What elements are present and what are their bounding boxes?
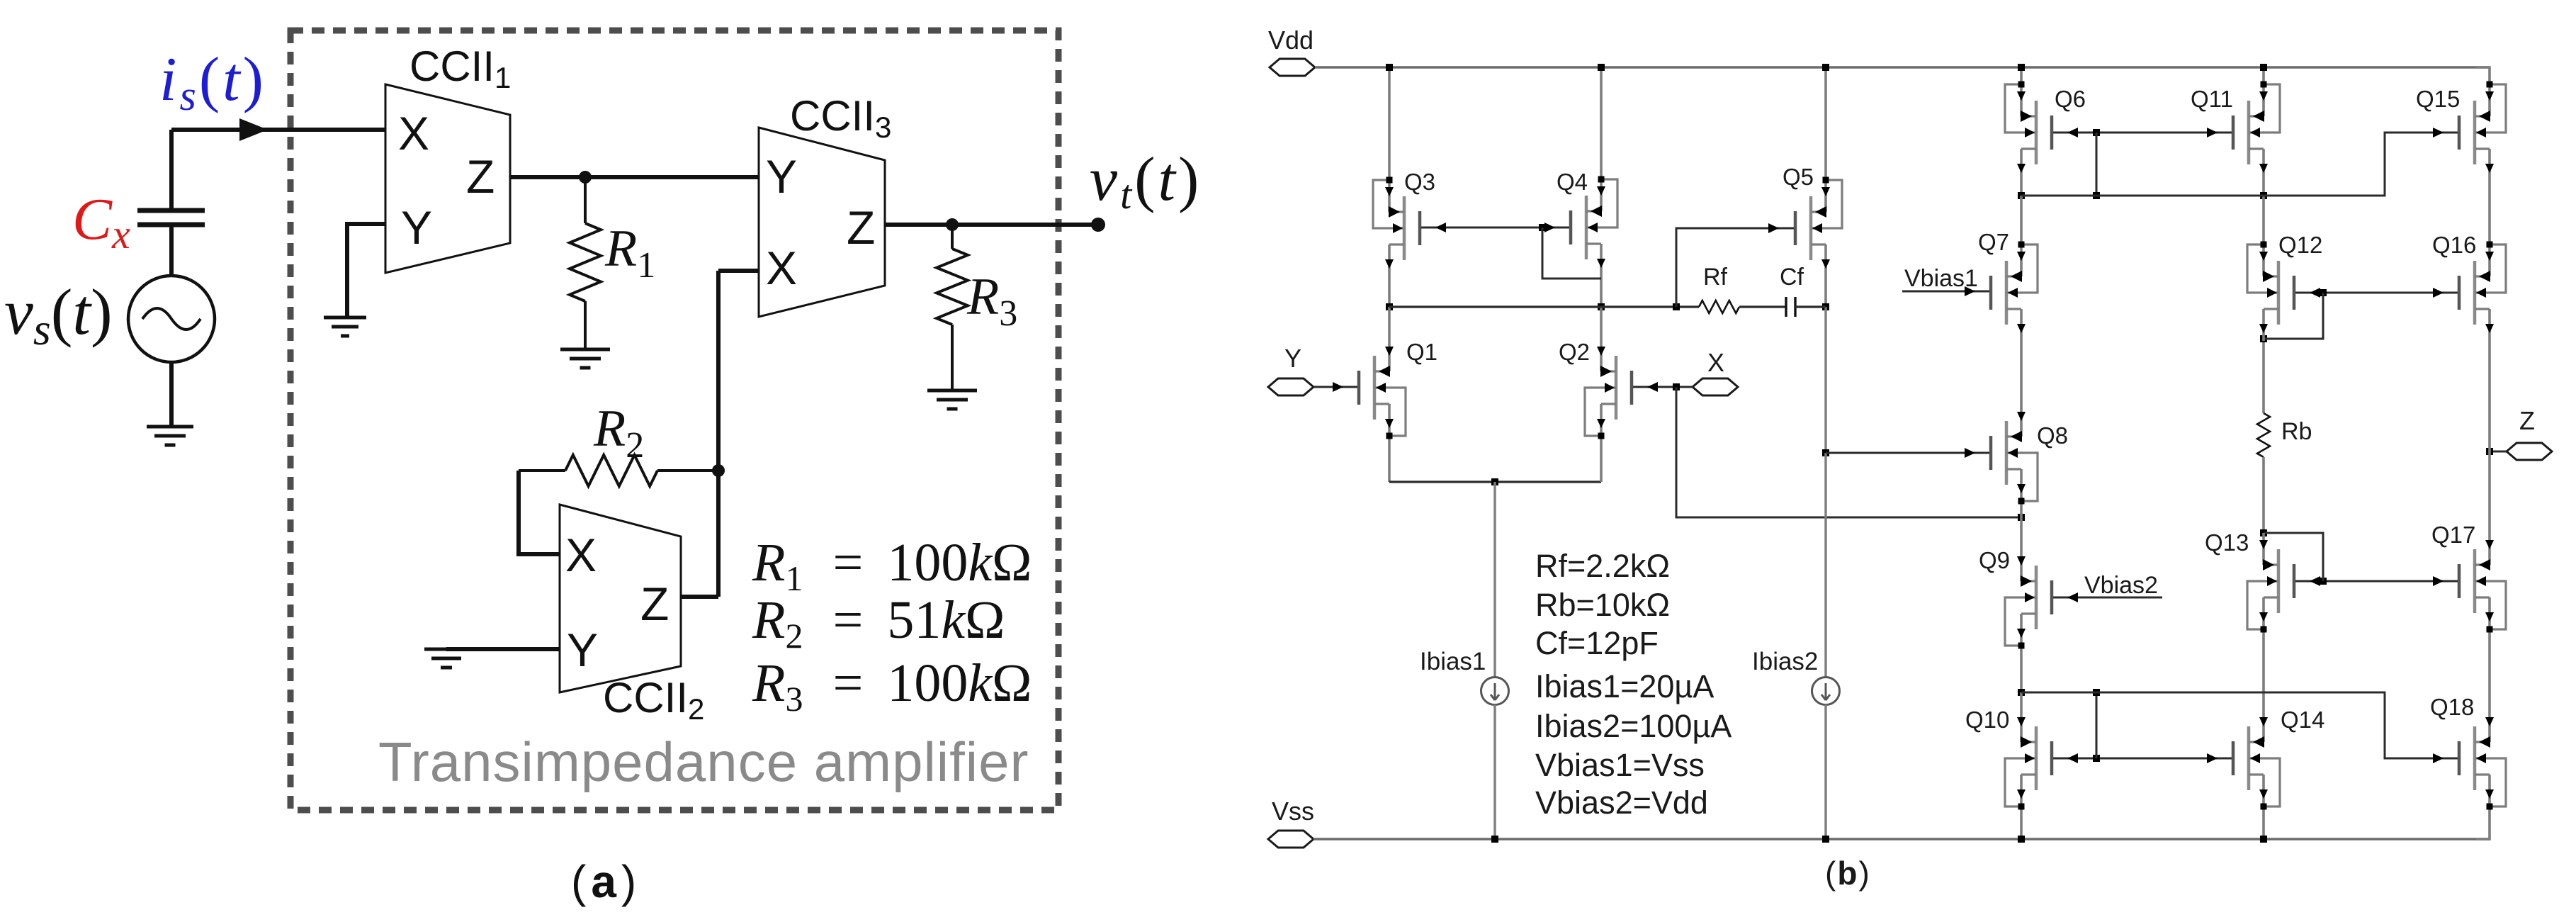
- wire col E from Vdd to Q11: [2262, 67, 2265, 84]
- wire Q3-Q4 gate tie: [1420, 227, 1571, 229]
- junction mirror line: [2093, 192, 2100, 199]
- ground below vs(t): [147, 425, 193, 429]
- junction Vdd col4: [2018, 64, 2025, 71]
- junction Cf node: [1822, 303, 1829, 310]
- svg-text:Transimpedance amplifier: Transimpedance amplifier: [378, 731, 1029, 793]
- port Vss: [1268, 831, 1314, 848]
- svg-text:Q10: Q10: [1965, 707, 2009, 733]
- svg-text:Z: Z: [640, 578, 669, 630]
- junction lower mirror col4: [2018, 689, 2025, 696]
- wire Q4 diode connection: [1542, 227, 1601, 279]
- svg-text:Vbias1: Vbias1: [1904, 265, 1978, 292]
- svg-text:Q17: Q17: [2431, 522, 2475, 548]
- junction R2 / CCII2 Z / CCII3 X: [712, 464, 725, 477]
- transistor Q3: [1373, 177, 1420, 277]
- junction node line col1: [1386, 303, 1393, 310]
- svg-text:Vbias2=Vdd: Vbias2=Vdd: [1535, 785, 1708, 821]
- wire Vbias1 to Q7 gate: [1902, 291, 1991, 293]
- wire tail Q2 side: [1600, 436, 1603, 482]
- resistor R3: [937, 225, 968, 390]
- wire Z output: [2490, 451, 2507, 453]
- wire Rf to Cf: [1739, 305, 1786, 308]
- wire Q12 diode connection: [2264, 293, 2323, 339]
- current arrow is(t): [239, 118, 268, 141]
- svg-text:Rb: Rb: [2281, 418, 2312, 445]
- transistor Q8: [1991, 405, 2038, 505]
- transistor Q12: [2247, 242, 2294, 342]
- wire Rb to Q13: [2262, 457, 2265, 533]
- wire Q16 to Z node: [2488, 341, 2491, 451]
- wire Q5 drain to Cf node: [1824, 276, 1827, 307]
- wire Q5 gate lead: [1676, 228, 1795, 307]
- svg-text:Y: Y: [401, 201, 432, 254]
- wire X to Q2 gate: [1632, 386, 1693, 388]
- wire CCII2 Z to node: [681, 595, 718, 599]
- wire col F Vdd corner to Q15: [2476, 67, 2490, 84]
- wire Q3 to node line: [1388, 276, 1391, 307]
- svg-text:Q13: Q13: [2205, 529, 2249, 556]
- transistor Q5: [1795, 177, 1842, 277]
- junction Vss col5: [2260, 836, 2267, 843]
- wire Vdd rail: [1315, 66, 2490, 68]
- svg-text:Q3: Q3: [1404, 169, 1435, 195]
- wire Q8 to X node line: [2020, 501, 2023, 517]
- node junction at R1: [579, 171, 592, 184]
- wire Q18 to Vss corner: [2476, 806, 2490, 839]
- current source Ibias2: [1812, 678, 1840, 705]
- wire Cf to col3: [1795, 305, 1826, 308]
- wire Y to Q1 gate: [1314, 386, 1359, 388]
- wire Q12-Q16 gate tie: [2294, 292, 2459, 294]
- svg-text:Q14: Q14: [2281, 707, 2324, 733]
- wire col D from Vdd to Q6: [2020, 67, 2023, 84]
- transistor Q10: [2005, 710, 2052, 810]
- source vs(t): [128, 276, 215, 362]
- svg-text:Z: Z: [847, 201, 875, 254]
- svg-text:Rf: Rf: [1703, 264, 1728, 291]
- svg-text:Y: Y: [567, 624, 598, 676]
- junction X node: [1673, 383, 1680, 390]
- transistor Q6: [2005, 81, 2052, 181]
- junction Vss Ibias2: [1822, 836, 1829, 843]
- junction Q3/Q4 gate tie: [1539, 224, 1546, 231]
- svg-text:Q18: Q18: [2430, 694, 2474, 720]
- junction Vdd col2: [1598, 64, 1605, 71]
- port Vdd: [1270, 59, 1315, 76]
- wire CCII3 X to node A: [718, 269, 759, 273]
- wire CCII3 Z output to vt(t): [885, 223, 1098, 227]
- junction Z node: [2486, 448, 2493, 455]
- wire Q6-Q11 gate tie: [2052, 132, 2233, 134]
- wire Q1 source to tail: [1388, 436, 1391, 482]
- wire Q4 to node line: [1600, 276, 1603, 307]
- wire Q6 to mirror node: [2020, 181, 2023, 196]
- svg-text:is(t): is(t): [159, 45, 266, 119]
- transistor Q11: [2233, 81, 2280, 181]
- wire tail down to Ibias1: [1493, 482, 1496, 678]
- junction X node at Q8/Q9: [2018, 514, 2025, 521]
- capacitor Cx: [137, 210, 205, 225]
- svg-text:Q2: Q2: [1559, 339, 1590, 365]
- wire Vbias2 to Q9 gate: [2052, 597, 2162, 599]
- wire is(t) input to CCII1 X: [171, 128, 385, 132]
- transistor Q7: [1991, 242, 2038, 342]
- wire Q7 to Q8: [2020, 341, 2023, 405]
- wire Q13 to Q14: [2262, 629, 2265, 710]
- svg-text:Y: Y: [1284, 344, 1301, 373]
- transistor Q16: [2459, 242, 2506, 342]
- svg-text:Q5: Q5: [1783, 164, 1814, 190]
- svg-text:X: X: [565, 529, 597, 581]
- wire Z node to Q17: [2488, 451, 2491, 533]
- resistor R1: [570, 177, 601, 349]
- junction Q10 gate tie: [2093, 755, 2100, 762]
- svg-text:Q9: Q9: [1979, 547, 2010, 573]
- junction Vdd col1: [1386, 64, 1393, 71]
- wire gate tie to lower mirror: [2096, 692, 2098, 758]
- svg-text:Q15: Q15: [2416, 86, 2460, 112]
- junction Q13 gate tie: [2320, 578, 2327, 585]
- svg-text:Vdd: Vdd: [1268, 26, 1314, 55]
- transistor Q13: [2247, 533, 2294, 633]
- svg-text:Vbias2: Vbias2: [2084, 572, 2158, 599]
- junction Q13 diode node: [2260, 529, 2267, 536]
- wire lower mirror node line to Q18 gate: [2021, 692, 2459, 758]
- wire Q17 to Q18: [2488, 629, 2491, 710]
- junction Q6 gate tie: [2093, 129, 2100, 136]
- svg-text:Cf=12pF: Cf=12pF: [1535, 625, 1659, 661]
- current source Ibias1: [1481, 678, 1509, 705]
- resistor Rf: [1699, 300, 1739, 313]
- wire CCII1 Z to CCII3 Y: [510, 175, 759, 179]
- svg-text:(b): (b): [1825, 855, 1871, 892]
- wire CCII1 Y to ground: [347, 224, 385, 317]
- svg-text:Q11: Q11: [2191, 86, 2233, 112]
- svg-text:Q1: Q1: [1406, 339, 1437, 365]
- wire Q15 to Q16: [2488, 181, 2491, 244]
- wire mirror node to Q12: [2262, 196, 2265, 244]
- wire capacitor top lead: [169, 130, 174, 210]
- svg-text:vt(t): vt(t): [1090, 145, 1202, 218]
- resistor Rb: [2257, 413, 2270, 457]
- transistor Q15: [2459, 81, 2506, 181]
- junction tail to Ibias1: [1491, 478, 1498, 485]
- svg-text:Vbias1=Vss: Vbias1=Vss: [1535, 747, 1705, 783]
- wire node line Q1-Q4 drains to Rf: [1389, 305, 1699, 308]
- wire lower mirror to Q10: [2020, 692, 2023, 710]
- wire mirror node line to Q15 gate: [2021, 133, 2459, 196]
- svg-text:(a): (a): [571, 856, 641, 907]
- wire Vss rail: [1314, 838, 2490, 840]
- svg-text:Q7: Q7: [1978, 229, 2009, 255]
- junction node line col2: [1598, 303, 1605, 310]
- wire Ibias2 to Vss: [1824, 704, 1826, 839]
- svg-text:Q6: Q6: [2055, 86, 2086, 112]
- dashed box: Transimpedance amplifier boundary: [290, 30, 1058, 810]
- svg-text:Q8: Q8: [2037, 422, 2068, 449]
- ground below R3: [927, 389, 977, 393]
- op-amp block CCII1: [385, 84, 510, 273]
- wire col Q4/Q2 from Vdd: [1600, 67, 1603, 179]
- wire mirror node to Q7: [2020, 196, 2023, 244]
- transistor Q2: [1585, 339, 1632, 439]
- svg-text:X: X: [1707, 348, 1724, 377]
- svg-text:Vss: Vss: [1272, 797, 1314, 826]
- wire Q11 to mirror node: [2262, 181, 2265, 196]
- svg-text:Q4: Q4: [1557, 169, 1588, 195]
- wire Cf node down to Q8 gate node: [1824, 307, 1826, 453]
- junction Vdd col5: [2260, 64, 2267, 71]
- junction lower mirror line: [2093, 689, 2100, 696]
- wire Q13 diode connection: [2264, 533, 2323, 581]
- wire CCII2 Y to ground: [446, 647, 560, 651]
- ground below R1: [560, 348, 610, 352]
- junction Vss col4: [2018, 836, 2025, 843]
- resistor R2: [519, 455, 718, 486]
- port Z: [2507, 443, 2552, 460]
- svg-text:Ibias1: Ibias1: [1420, 648, 1486, 675]
- junction Vdd col3: [1822, 64, 1829, 71]
- transistor Q17: [2459, 533, 2506, 633]
- svg-text:Ibias2: Ibias2: [1752, 648, 1818, 675]
- wire col Q5 from Vdd: [1824, 67, 1827, 180]
- wire Q14 to Vss: [2262, 806, 2265, 839]
- transistor Q14: [2233, 710, 2280, 810]
- junction Q12 gate tie: [2320, 289, 2327, 296]
- wire Q9 to lower mirror node: [2020, 646, 2023, 692]
- junction mirror node col4: [2018, 192, 2025, 199]
- junction mirror node col5: [2260, 192, 2267, 199]
- wire capacitor bottom lead: [169, 225, 174, 276]
- op-amp block CCII2: [560, 505, 681, 692]
- ground at CCII1 Y: [324, 316, 366, 320]
- svg-text:X: X: [766, 242, 797, 294]
- wire node line to Q2: [1600, 307, 1603, 339]
- op-amp block CCII3: [759, 128, 885, 317]
- junction Vss Ibias1: [1491, 836, 1498, 843]
- svg-text:Rb=10kΩ: Rb=10kΩ: [1535, 587, 1670, 623]
- svg-text:Z: Z: [466, 150, 495, 203]
- svg-text:Rf=2.2kΩ: Rf=2.2kΩ: [1535, 548, 1670, 584]
- capacitor Cf: [1786, 297, 1795, 317]
- port X: [1693, 378, 1738, 395]
- wire Q12 to diode node: [2262, 341, 2265, 413]
- wire Q13-Q17 gate tie: [2294, 580, 2459, 583]
- transistor Q9: [2005, 549, 2052, 649]
- svg-text:Q12: Q12: [2278, 232, 2322, 258]
- wire down to Ibias2: [1824, 453, 1826, 678]
- wire tail line: [1389, 480, 1601, 483]
- wire Q8 gate lead: [1826, 452, 1991, 454]
- wire col Q3/Q1 from Vdd: [1388, 67, 1391, 180]
- ground at CCII2 Y: [424, 648, 468, 651]
- terminal vt(t): [1091, 218, 1105, 232]
- port Y: [1268, 378, 1314, 395]
- svg-text:Cf: Cf: [1780, 264, 1804, 291]
- transistor Q4: [1571, 176, 1617, 276]
- wire Q10 to Vss: [2020, 806, 2023, 839]
- wire Ibias1 to Vss: [1493, 704, 1496, 839]
- svg-text:Ibias1=20µA: Ibias1=20µA: [1535, 668, 1714, 704]
- svg-text:Z: Z: [2519, 406, 2535, 435]
- junction at R3: [946, 218, 959, 231]
- wire X node down: [1676, 387, 2021, 517]
- svg-text:Q16: Q16: [2432, 232, 2476, 258]
- transistor Q18: [2459, 710, 2506, 810]
- wire vertical node A to R2/CCII2 Z junction: [716, 271, 721, 597]
- junction node line at Q5 gate: [1673, 303, 1680, 310]
- wire CCII2 X feedback to R2: [519, 471, 560, 554]
- junction Q8 gate node: [1822, 449, 1829, 456]
- wire gate tie to mirror node: [2096, 133, 2098, 196]
- wire node line to Q1: [1388, 307, 1391, 339]
- wire Q10-Q14 gate tie: [2052, 758, 2233, 760]
- wire X node line to Q9: [2020, 517, 2023, 549]
- svg-text:Y: Y: [766, 150, 797, 203]
- wire source to ground: [169, 362, 174, 427]
- svg-text:Ibias2=100µA: Ibias2=100µA: [1535, 708, 1732, 744]
- transistor Q1: [1359, 339, 1406, 439]
- svg-text:X: X: [398, 107, 429, 159]
- svg-text:vs(t): vs(t): [4, 276, 113, 354]
- junction Q12 diode node: [2260, 335, 2267, 342]
